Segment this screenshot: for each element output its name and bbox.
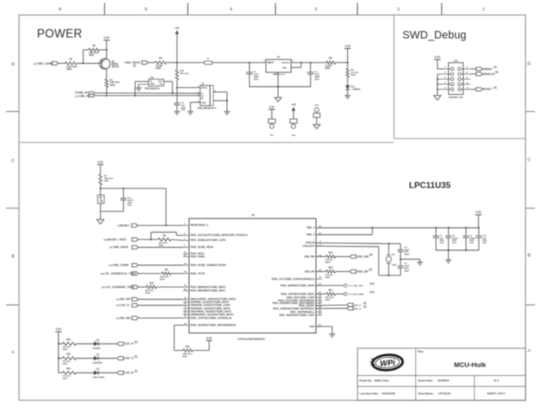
- header CN2 pin stubs row 1: [444, 68, 451, 70]
- IC U2 left pin 15: [183, 314, 189, 316]
- svg-text:R4: R4: [159, 57, 163, 60]
- wire fork up-over to pin 4: [150, 232, 152, 239]
- svg-text:PIO0_6/USB_CONNECT/SCK0: PIO0_6/USB_CONNECT/SCK0: [191, 264, 227, 267]
- header CN2 pin stubs row 4: [444, 83, 451, 85]
- node P1_TXD flag: [344, 284, 347, 287]
- node C12 top junction: [123, 188, 125, 190]
- wire base node up to R2: [82, 50, 84, 64]
- svg-text:3: 3: [315, 6, 318, 12]
- IC U2 right pin 45: [316, 314, 322, 316]
- SWD section divider horizontal: [394, 138, 526, 140]
- svg-text:USB CONN: USB CONN: [93, 377, 105, 379]
- resistor R13: [62, 357, 76, 360]
- wire RESET row: [470, 88, 476, 90]
- wire P1_TXD net: [316, 285, 344, 287]
- svg-text:[3]: [3]: [370, 255, 373, 257]
- header CN2 pin stubs row 3: [444, 78, 451, 80]
- IC U2 left pin 13: [183, 308, 189, 310]
- svg-text:[3]: [3]: [369, 270, 372, 272]
- svg-text:XTALOUT: XTALOUT: [303, 245, 315, 248]
- right ruler ticks: [526, 111, 536, 113]
- ground reset circuit: [97, 220, 104, 225]
- svg-text:R6: R6: [329, 58, 333, 60]
- resistor R10: [146, 286, 156, 289]
- svg-text:0603: 0603: [63, 349, 69, 351]
- IC U2 right pin 36: [316, 302, 322, 304]
- svg-text:2: 2: [397, 6, 400, 12]
- node gnd bus junction: [277, 86, 279, 88]
- svg-text:SWDCLK: SWDCLK: [483, 72, 496, 76]
- svg-text:3.3V: 3.3V: [269, 105, 275, 109]
- svg-text:USB_VBUS: USB_VBUS: [125, 60, 141, 64]
- header CN2 pin stubs row 2: [444, 73, 451, 75]
- header CN2 pin circles row 5: [451, 88, 454, 91]
- svg-text:EN: EN: [159, 84, 162, 86]
- svg-text:R10: R10: [150, 283, 155, 285]
- svg-text:0402: 0402: [404, 253, 409, 256]
- svg-text:USB_DP: USB_DP: [357, 269, 369, 273]
- capacitor C1: [248, 63, 250, 73]
- wire WAKEUP pin to R11: [174, 324, 183, 326]
- wire Q1 collector to R3: [106, 69, 108, 79]
- ground bypass caps: [445, 259, 451, 261]
- svg-text:WPi: WPi: [380, 358, 396, 368]
- wire 3.3V to pin 1: [436, 60, 438, 69]
- svg-text:3.3V: 3.3V: [206, 336, 212, 340]
- wire rail to R14: [59, 372, 63, 374]
- wire LED_D to pin: [137, 304, 183, 306]
- svg-text:VSS: VSS: [309, 325, 314, 328]
- IC U2 right pin 27: [316, 234, 322, 236]
- port USB_DM out: [350, 255, 356, 258]
- wire J1 GND to ground: [190, 101, 200, 103]
- svg-text:[5]: [5]: [364, 307, 367, 309]
- wire ground bus SWD: [436, 74, 438, 96]
- svg-text:P1_SCO_RXD: P1_SCO_RXD: [349, 294, 364, 296]
- IC U2 right pin 20: [316, 271, 322, 273]
- node VBUS junction: [176, 87, 178, 89]
- SWD section divider vertical: [393, 15, 395, 139]
- ground shield: [224, 111, 230, 113]
- IC U2 right pin 6: [316, 242, 322, 244]
- wire RESET port to pin 3: [137, 224, 183, 226]
- connector CN2 header: [449, 63, 464, 95]
- ferrite FB1: [176, 63, 178, 70]
- wire USB_CONN to pin: [137, 264, 183, 266]
- svg-text:X7R: X7R: [440, 243, 445, 245]
- svg-text:R15: R15: [329, 253, 334, 255]
- svg-text:LED_R: LED_R: [124, 342, 133, 346]
- svg-text:PIO1_29/SCK0/CT32B0_CAP1: PIO1_29/SCK0/CT32B0_CAP1: [279, 314, 315, 317]
- svg-text:TP3: TP3: [315, 105, 320, 107]
- wire SW1 to bottom bus: [99, 204, 101, 212]
- ground U4: [275, 98, 282, 102]
- svg-text:0603: 0603: [351, 74, 357, 76]
- resistor R2: [89, 48, 100, 51]
- svg-text:D: D: [527, 61, 531, 66]
- node VDD join: [371, 227, 373, 229]
- power switch U3: [149, 79, 164, 86]
- svg-text:PIO0_3/USB_VBUS: PIO0_3/USB_VBUS: [191, 246, 214, 249]
- wire to R8: [137, 273, 162, 275]
- svg-text:16: 16: [184, 263, 186, 265]
- wire R12 to LED: [76, 343, 94, 345]
- svg-text:POWER: POWER: [37, 27, 82, 40]
- svg-text:3.3V: 3.3V: [435, 55, 441, 59]
- capacitor C4: [448, 227, 450, 229]
- svg-text:(1/5)RESET_TRCF: (1/5)RESET_TRCF: [104, 237, 127, 241]
- wire RESET_TRCF to fork: [137, 239, 158, 241]
- wire R3 to USB_JP line: [106, 88, 108, 96]
- IC U2 right pin 28: [316, 227, 322, 229]
- wire bypass ground bus: [436, 249, 479, 251]
- svg-text:[5] SW_WK: [5] SW_WK: [116, 316, 131, 320]
- IC U2 left pin 12: [183, 304, 189, 306]
- wire LED_A net: [316, 304, 347, 307]
- port SWDIO: [476, 67, 482, 70]
- svg-text:GREEN: GREEN: [352, 89, 360, 91]
- node shield junction: [226, 100, 228, 102]
- svg-text:PIO0_16/AD5/CT32B1_MAT3/WAKEUP: PIO0_16/AD5/CT32B1_MAT3/WAKEUP: [191, 324, 237, 327]
- svg-text:3.3V: 3.3V: [345, 44, 351, 48]
- wire bus to ground: [447, 250, 449, 260]
- transistor Q1: [100, 59, 111, 70]
- wire XTALIN to crystal: [316, 242, 389, 245]
- header CN2 pin circles row 1: [451, 67, 454, 70]
- svg-text:LPC11U35: LPC11U35: [438, 392, 451, 396]
- IC U2 left pin 10: [183, 298, 189, 300]
- svg-text:3216: 3216: [315, 79, 320, 81]
- node reset line junction: [165, 225, 167, 227]
- svg-text:0603: 0603: [325, 262, 331, 264]
- wire R6 to 3.3V node: [336, 62, 348, 64]
- svg-text:22: 22: [184, 255, 186, 257]
- svg-text:0603: 0603: [63, 363, 69, 365]
- wire fuse to U4 input: [212, 62, 266, 64]
- port USB_DP out: [350, 270, 356, 273]
- wire 5V rail to fuse: [177, 62, 205, 64]
- svg-text:V1.0: V1.0: [493, 379, 499, 383]
- IC U2 left pin 39: [183, 273, 189, 275]
- svg-text:Sheet Name :: Sheet Name :: [418, 392, 435, 396]
- wire J1 shield: [213, 91, 227, 93]
- connector J1 USB micro: [200, 85, 210, 105]
- svg-text:RESET/PIO0_0: RESET/PIO0_0: [191, 224, 209, 227]
- svg-text:6: 6: [59, 6, 62, 12]
- IC U2 left pin 21: [183, 253, 189, 255]
- node bypass bus junctions: [448, 249, 450, 251]
- wire R13 to LED: [76, 357, 94, 359]
- wire USB_VBUS to R4: [147, 62, 155, 64]
- svg-text:TAB: TAB: [282, 66, 286, 69]
- svg-text:0603: 0603: [160, 279, 166, 281]
- wire TAB to output: [291, 66, 301, 68]
- svg-text:TP2: TP2: [292, 135, 297, 137]
- header CN2 pin stubs row 5: [444, 88, 451, 90]
- wire LED to port LED_B: [98, 372, 117, 374]
- svg-text:[3]: [3]: [133, 66, 136, 68]
- diode LED LED_R: [94, 342, 99, 346]
- svg-text:0603: 0603: [182, 356, 188, 358]
- svg-text:0603: 0603: [159, 245, 165, 247]
- ground D1: [345, 95, 351, 97]
- svg-text:LPC11U35: LPC11U35: [409, 180, 451, 190]
- wire U3 output: [164, 81, 173, 83]
- capacitor C10: [478, 227, 480, 229]
- title block column lines: [415, 348, 417, 400]
- IC U2 left pin 3: [183, 224, 189, 226]
- svg-text:USB_DP: USB_DP: [304, 270, 314, 273]
- resistor R9: [158, 238, 171, 241]
- svg-text:0603: 0603: [110, 85, 116, 87]
- wire R1 to Q1 base: [77, 62, 102, 64]
- resistor R4: [155, 61, 166, 64]
- wire U4 output: [291, 62, 326, 64]
- node xtal cap mid junction: [400, 258, 402, 260]
- svg-text:3.3V: 3.3V: [98, 160, 104, 164]
- wire R5 to LED D1: [347, 78, 349, 86]
- svg-text:PIO0_18/RXD/CT32B0_MAT0: PIO0_18/RXD/CT32B0_MAT0: [281, 284, 315, 287]
- svg-text:1: 1: [482, 6, 485, 12]
- svg-text:26: 26: [184, 323, 186, 325]
- svg-text:PIO0_1/CLKOUT/CT32B0_MAT2/USB_: PIO0_1/CLKOUT/CT32B0_MAT2/USB_FTOGGLE: [191, 234, 248, 237]
- svg-text:39: 39: [184, 272, 186, 274]
- svg-text:2: 2: [184, 246, 185, 248]
- wire R15 to port: [336, 256, 350, 258]
- svg-text:[2] USB_5V: [2] USB_5V: [75, 94, 90, 98]
- svg-text:SHEET: 3 OF 5: SHEET: 3 OF 5: [487, 392, 505, 396]
- svg-text:SOT23: SOT23: [112, 67, 120, 69]
- svg-text:B: B: [11, 254, 14, 259]
- wire FB1 to VBUS node: [176, 80, 178, 88]
- svg-text:D: D: [11, 62, 15, 67]
- port SWDCLK: [476, 72, 482, 75]
- svg-text:GND: GND: [201, 103, 206, 105]
- svg-text:X7R: X7R: [181, 110, 186, 112]
- resistor R6: [326, 61, 336, 64]
- svg-text:PIO0_7/CTS: PIO0_7/CTS: [191, 272, 206, 275]
- capacitor C12: [122, 188, 124, 198]
- IC U2 left pin 14: [183, 311, 189, 313]
- node LED rail junction R13: [58, 357, 60, 359]
- node LED rail junction R12: [58, 343, 60, 345]
- IC U2 right pin 38: [316, 308, 322, 310]
- wire U3 input: [135, 81, 148, 83]
- wire reset node to C12: [100, 187, 123, 189]
- wire R17 to flag: [336, 293, 345, 295]
- wire VDD_1 rail: [316, 227, 479, 229]
- svg-text:3.3V: 3.3V: [104, 36, 110, 40]
- svg-text:Title:: Title:: [418, 350, 424, 354]
- IC U2 left pin 22: [183, 256, 189, 258]
- svg-text:C: C: [527, 157, 531, 162]
- wire SWDCLK row: [470, 73, 476, 75]
- svg-text:MCU-Hulk: MCU-Hulk: [454, 362, 486, 369]
- svg-text:10: 10: [184, 298, 186, 300]
- svg-text:HEADER_2X5: HEADER_2X5: [449, 96, 464, 99]
- node crystal top junction: [388, 243, 390, 245]
- svg-text:PIO0_5/SDA: PIO0_5/SDA: [191, 255, 206, 258]
- node TAB junction: [300, 62, 302, 64]
- svg-text:R14: R14: [67, 368, 72, 371]
- IC U2 right pin 7: [316, 245, 322, 247]
- wire USB_CONN to R1: [57, 62, 65, 64]
- svg-text:3: 3: [184, 224, 185, 226]
- wire VBUS to USB connector pin1: [177, 87, 200, 89]
- svg-text:OUTPUT: OUTPUT: [282, 63, 291, 65]
- svg-text:SWD_Debug: SWD_Debug: [403, 30, 467, 42]
- wire R9 to pin 5: [171, 239, 183, 242]
- node base junction: [82, 62, 84, 64]
- port RESET swd: [476, 88, 482, 91]
- left ruler ticks: [6, 111, 19, 113]
- capacitor C9: [465, 227, 467, 229]
- port LED_A: [347, 303, 353, 306]
- svg-text:[5] SW_ISP: [5] SW_ISP: [116, 297, 130, 301]
- wire rail to R12: [59, 343, 63, 345]
- svg-text:12M: 12M: [392, 264, 396, 266]
- wire reset node to reset line: [123, 187, 166, 189]
- fuse F1: [205, 61, 213, 64]
- wire USB D- line: [94, 92, 200, 94]
- IC U2 right pin 32: [316, 285, 322, 287]
- IC U2 right pin 19: [316, 256, 322, 258]
- svg-text:0603: 0603: [63, 378, 69, 380]
- IC U2 right pin 33: [316, 293, 322, 295]
- svg-text:VBUS: VBUS: [201, 88, 208, 90]
- IC U2 right pin 30: [316, 278, 322, 280]
- svg-text:LED_B: LED_B: [124, 371, 133, 375]
- gnd bus under U4: [249, 86, 310, 88]
- IC U2 left pin 5: [183, 239, 189, 241]
- svg-text:(4,5) P1_12/SWDIO_TRCF: (4,5) P1_12/SWDIO_TRCF: [102, 285, 135, 289]
- IC U2 left pin 26: [183, 324, 189, 326]
- title block row lines: [358, 375, 526, 377]
- ground C3: [174, 111, 180, 113]
- top ruler ticks: [104, 3, 106, 15]
- svg-text:GND: GND: [150, 84, 155, 86]
- svg-text:P1_TVA_TXD: P1_TVA_TXD: [349, 284, 363, 287]
- diode LED LED_G: [94, 356, 99, 360]
- svg-text:30: 30: [184, 289, 186, 291]
- svg-text:VDD_2: VDD_2: [306, 234, 315, 237]
- svg-text:ID: ID: [201, 98, 204, 100]
- svg-text:LED_G: LED_G: [354, 308, 362, 310]
- diode D1 LED: [345, 85, 349, 89]
- svg-text:0603: 0603: [67, 69, 73, 71]
- svg-text:42: 42: [319, 309, 321, 312]
- svg-text:Drawn By :: Drawn By :: [360, 379, 374, 383]
- resistor R11: [183, 349, 193, 352]
- ground U3: [139, 83, 149, 85]
- wire LED to port LED_G: [98, 357, 117, 359]
- wire rail to R13: [59, 357, 63, 359]
- svg-text:LED_G: LED_G: [124, 356, 134, 360]
- svg-text:0603: 0603: [89, 55, 95, 57]
- capacitor C2: [310, 62, 312, 64]
- capacitor C5: [400, 244, 402, 250]
- svg-text:TP1: TP1: [270, 135, 275, 137]
- IC U2 right pin 34: [316, 297, 322, 299]
- svg-text:3.3V: 3.3V: [56, 327, 62, 331]
- svg-text:[3]: [3]: [494, 67, 497, 69]
- wire SW_WK to pin: [137, 317, 183, 319]
- wire R11 to 3.3V: [193, 349, 209, 351]
- svg-text:(4,5) P1_15/SWDCLK_TRCF: (4,5) P1_15/SWDCLK_TRCF: [101, 271, 137, 275]
- svg-text:29: 29: [184, 285, 186, 287]
- node 3.3V out junction: [347, 62, 349, 64]
- crystal Y1: [388, 244, 390, 255]
- svg-text:X7R: X7R: [470, 243, 475, 245]
- wire D1 to ground: [347, 90, 349, 96]
- resistor R3: [105, 79, 108, 88]
- node fork junction: [150, 239, 152, 241]
- svg-text:3: 3: [198, 94, 199, 96]
- IC U2 LPC11U35 body: [189, 219, 316, 334]
- svg-text:13: 13: [184, 307, 186, 309]
- svg-text:(1)RESET: (1)RESET: [118, 223, 130, 227]
- svg-text:U4: U4: [277, 56, 281, 59]
- svg-text:R16: R16: [329, 267, 334, 269]
- wire R2 to emitter rail: [100, 49, 107, 51]
- svg-text:0402: 0402: [404, 269, 409, 272]
- wire R16 to port: [336, 271, 350, 273]
- wire xtal mid to ground: [401, 258, 420, 260]
- resistor R17: [326, 293, 336, 296]
- node emitter rail junction: [106, 49, 108, 51]
- svg-text:[5]: [5]: [364, 303, 367, 305]
- svg-text:4: 4: [230, 6, 233, 12]
- svg-text:Y1: Y1: [392, 255, 396, 257]
- svg-text:[3] USB_CONN: [3] USB_CONN: [109, 263, 128, 267]
- svg-text:LED_A: LED_A: [354, 304, 362, 307]
- svg-text:0603: 0603: [156, 68, 162, 70]
- IC U2 left pin 16: [183, 264, 189, 266]
- svg-text:CN2: CN2: [454, 60, 459, 62]
- svg-text:BiWei Chen: BiWei Chen: [375, 379, 390, 383]
- resistor R7: [99, 165, 101, 175]
- svg-text:R17: R17: [329, 290, 334, 292]
- wire R10 to pin: [157, 286, 184, 288]
- svg-text:A: A: [11, 350, 15, 355]
- node C1 junction: [249, 62, 251, 64]
- svg-text:R11: R11: [186, 346, 191, 348]
- header CN2 pin circles row 2: [451, 73, 454, 76]
- IC U2 right pin 35: [316, 300, 322, 302]
- wire P1_RXD to R17: [316, 293, 326, 295]
- svg-text:GREEN: GREEN: [93, 348, 101, 350]
- svg-text:PIO0_2/SSEL0/CT16B0_CAP0: PIO0_2/SSEL0/CT16B0_CAP0: [191, 239, 227, 242]
- header CN2 pin circles row 3: [451, 78, 454, 81]
- IC U2 left pin 11: [183, 301, 189, 303]
- diode LED LED_B: [94, 371, 99, 375]
- svg-text:30: 30: [319, 277, 321, 279]
- svg-text:[3] USB_CONN: [3] USB_CONN: [34, 62, 53, 66]
- svg-text:[5]: [5]: [135, 356, 138, 358]
- ground crystal: [417, 261, 423, 263]
- logo WPI: [372, 354, 403, 371]
- wire LED to port LED_R: [98, 343, 117, 345]
- wire XTALOUT to crystal: [316, 245, 379, 248]
- resistor R14: [62, 371, 76, 374]
- resistor R5: [347, 63, 349, 69]
- ground J1: [187, 111, 193, 113]
- svg-text:USB_MICRO-B-F: USB_MICRO-B-F: [198, 108, 217, 110]
- svg-text:0603: 0603: [145, 292, 151, 294]
- svg-text:3.3V: 3.3V: [476, 210, 482, 214]
- resistor R16: [326, 270, 336, 273]
- svg-text:[3] USB_VBUS: [3] USB_VBUS: [110, 245, 129, 249]
